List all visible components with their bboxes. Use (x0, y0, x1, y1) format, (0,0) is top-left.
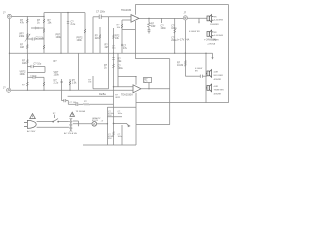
svg-text:240k: 240k (19, 35, 25, 38)
svg-text:100n: 100n (161, 27, 167, 30)
svg-text:Ra/Ba: Ra/Ba (99, 93, 106, 96)
svg-text:4-8R: 4-8R (214, 86, 219, 88)
svg-text:47u: 47u (123, 47, 128, 50)
svg-text:C? 100u: C? 100u (70, 102, 79, 104)
svg-text:WOOFER: WOOFER (214, 75, 224, 77)
svg-text:40W/8R: 40W/8R (214, 93, 222, 95)
svg-text:1.5k: 1.5k (72, 81, 77, 84)
svg-text:40W/8R: 40W/8R (214, 79, 222, 81)
svg-text:100u: 100u (171, 27, 177, 30)
svg-text:(+-17V / 4A: (+-17V / 4A (177, 39, 190, 42)
svg-text:TR 500VA: TR 500VA (76, 110, 86, 113)
svg-text:1k8: 1k8 (20, 46, 25, 49)
svg-text:4-8R: 4-8R (214, 71, 219, 73)
svg-text:TDA2030: TDA2030 (121, 9, 132, 12)
svg-text:100k: 100k (54, 74, 60, 77)
svg-text:4.500W: 4.500W (189, 31, 196, 33)
svg-text:8R: 8R (214, 16, 217, 18)
svg-text:100W/8R: 100W/8R (210, 24, 219, 26)
svg-text:100k: 100k (77, 39, 83, 42)
svg-text:C? 10n: C? 10n (30, 76, 38, 78)
svg-text:10-82: 10-82 (177, 64, 184, 67)
svg-text:AC 230V: AC 230V (27, 130, 36, 133)
svg-text:+-24V / 5A): +-24V / 5A) (204, 39, 216, 42)
svg-text:8R: 8R (214, 32, 217, 34)
svg-text:2.2u: 2.2u (54, 81, 59, 84)
svg-text:4-16OHM: 4-16OHM (214, 20, 223, 22)
svg-text:1M: 1M (88, 82, 91, 84)
svg-text:10R: 10R (151, 25, 156, 28)
svg-text:4-16OHM: 4-16OHM (214, 35, 223, 37)
svg-text:AC 12V A 1/A: AC 12V A 1/A (64, 132, 77, 135)
svg-text:B?-XX: B?-XX (92, 120, 99, 122)
svg-text:2.2u: 2.2u (71, 23, 76, 26)
svg-text:4k7: 4k7 (105, 46, 110, 49)
svg-text:C? 10u: C? 10u (34, 63, 42, 66)
svg-text:220: 220 (95, 37, 100, 40)
svg-text:0R22: 0R22 (115, 97, 121, 99)
svg-text:100k: 100k (56, 36, 62, 39)
svg-text:C? 2.2u: C? 2.2u (36, 37, 45, 40)
svg-text:C? 100n: C? 100n (96, 11, 106, 14)
svg-text:+24V/5A: +24V/5A (207, 43, 216, 46)
svg-text:TWEETER: TWEETER (214, 90, 225, 92)
svg-text:1k8: 1k8 (22, 62, 27, 65)
svg-text:25V: 25V (108, 115, 112, 117)
svg-text:100k: 100k (20, 73, 26, 76)
svg-text:TDA2030A: TDA2030A (121, 93, 133, 96)
svg-text:35V: 35V (108, 138, 112, 140)
svg-text:100u: 100u (118, 67, 124, 70)
